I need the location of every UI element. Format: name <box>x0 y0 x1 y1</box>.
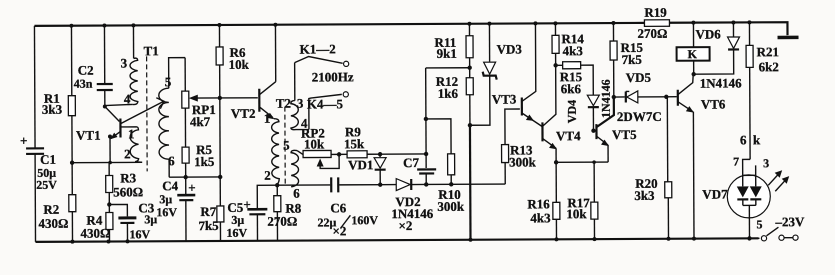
transformer T2 core <box>276 96 292 184</box>
svg-text:C6: C6 <box>330 200 346 215</box>
resistor R1 <box>41 26 75 163</box>
optocoupler VD7 <box>702 154 770 238</box>
transformer T1 winding 1-2 <box>121 126 142 162</box>
svg-text:10k: 10k <box>229 57 250 72</box>
wire: R6 bottom to node y176 <box>218 96 223 177</box>
transformer T1 winding 3-4 <box>104 25 137 106</box>
svg-text:10k: 10k <box>304 136 325 151</box>
resistor R10 <box>424 117 465 214</box>
switch K1-2 <box>295 41 349 100</box>
svg-text:C2: C2 <box>78 63 94 78</box>
svg-text:1: 1 <box>128 126 135 141</box>
label 1N4146 vertical <box>599 79 613 118</box>
svg-text:7: 7 <box>733 154 739 168</box>
svg-text:3μ: 3μ <box>231 213 244 227</box>
wire: top supply rail <box>34 22 787 39</box>
transistor VT1 <box>76 106 121 162</box>
capacitor C2 <box>73 25 112 106</box>
svg-text:3k3: 3k3 <box>42 102 63 117</box>
svg-text:5: 5 <box>283 138 290 153</box>
wire: VT4/VT5 emitter link <box>554 160 608 165</box>
svg-text:430Ω: 430Ω <box>80 226 110 241</box>
svg-text:C4: C4 <box>162 178 178 193</box>
transistor VT6 <box>666 74 727 238</box>
svg-text:6k2: 6k2 <box>759 59 779 74</box>
svg-text:43n: 43n <box>74 77 93 91</box>
svg-text:2100Hz: 2100Hz <box>312 69 354 84</box>
wire: VT2 base line <box>220 97 258 99</box>
svg-text:10k: 10k <box>566 206 587 221</box>
capacitor C3 <box>109 200 157 241</box>
svg-text:T2: T2 <box>276 96 291 111</box>
resistor R5 <box>182 142 215 177</box>
svg-text:6: 6 <box>168 153 175 168</box>
label 1N4146 (VD6) <box>700 75 742 90</box>
relay K <box>676 21 709 77</box>
svg-text:1k5: 1k5 <box>194 154 215 169</box>
resistor R15 (7k5) <box>610 21 644 97</box>
svg-text:R19: R19 <box>644 5 667 20</box>
wire: bottom ground rail <box>36 238 759 242</box>
svg-text:560Ω: 560Ω <box>113 184 143 199</box>
wire: lower signal line <box>275 182 396 187</box>
svg-text:R7: R7 <box>200 204 216 219</box>
svg-text:4k7: 4k7 <box>190 114 211 129</box>
svg-text:K1—2: K1—2 <box>300 41 336 56</box>
svg-text:160V: 160V <box>351 213 378 227</box>
svg-text:7k5: 7k5 <box>622 52 643 67</box>
transformer T2 winding 5-6 <box>283 138 303 201</box>
resistor R17 <box>566 162 598 239</box>
wire: node R5/C4/R7 link y176 <box>169 175 222 180</box>
svg-text:VT3: VT3 <box>492 92 517 107</box>
svg-text:300k: 300k <box>509 154 537 169</box>
svg-text:+: + <box>20 133 27 148</box>
resistor R6 <box>216 25 250 98</box>
svg-text:VD5: VD5 <box>626 70 652 85</box>
svg-text:+: + <box>188 180 195 195</box>
svg-text:VD3: VD3 <box>497 41 523 56</box>
capacitor C6 <box>317 177 378 238</box>
label 2100Hz <box>312 69 354 84</box>
resistor R4 <box>80 202 113 241</box>
svg-text:C7: C7 <box>403 155 419 170</box>
resistor R7 <box>198 177 224 241</box>
resistor R2 <box>38 163 76 242</box>
svg-text:R2: R2 <box>43 202 59 217</box>
labels pin 6 / k <box>740 132 761 147</box>
svg-text:15k: 15k <box>344 136 365 151</box>
diode VD5 <box>611 70 665 103</box>
transformer T1 winding 5-6 <box>159 58 186 178</box>
wire: lower line VD2 to R13 <box>424 182 505 187</box>
svg-text:C1: C1 <box>40 152 56 167</box>
svg-text:2: 2 <box>124 146 131 161</box>
svg-text:1: 1 <box>264 111 271 126</box>
svg-text:K4—5: K4—5 <box>307 96 344 111</box>
resistor R11 <box>434 24 473 68</box>
svg-text:25V: 25V <box>36 178 57 192</box>
svg-text:300k: 300k <box>437 199 465 214</box>
wire: R12 bottom to ground <box>468 123 473 242</box>
svg-text:VD7: VD7 <box>702 186 728 201</box>
svg-text:k: k <box>753 132 761 147</box>
potentiometer RP1 <box>182 57 218 147</box>
svg-text:3: 3 <box>763 156 769 170</box>
svg-text:16V: 16V <box>129 227 150 241</box>
svg-text:3k3: 3k3 <box>634 188 655 203</box>
transistor VT2 <box>230 25 275 121</box>
svg-text:16V: 16V <box>156 205 177 219</box>
svg-text:T1: T1 <box>144 43 159 58</box>
wire: audio node to R11/R12 divider <box>378 152 428 157</box>
wire: divider tap vertical x426 <box>426 68 470 154</box>
label 2DW7C <box>617 109 662 124</box>
svg-text:4: 4 <box>124 91 131 106</box>
junction dots bottom rail right <box>554 237 696 242</box>
svg-text:6: 6 <box>740 132 747 147</box>
transistor VT4 <box>542 65 581 162</box>
svg-text:7k5: 7k5 <box>198 218 219 233</box>
svg-text:VD6: VD6 <box>695 27 721 42</box>
capacitor C5 <box>226 185 277 241</box>
resistor R15 (6k6) <box>556 62 594 97</box>
resistor R8 <box>267 185 302 241</box>
svg-text:1k6: 1k6 <box>438 86 459 101</box>
diode VD2 <box>391 178 434 233</box>
svg-text:3: 3 <box>121 55 128 70</box>
svg-text:16V: 16V <box>226 226 247 240</box>
resistor R21 <box>746 20 780 159</box>
capacitor C1 <box>20 133 57 192</box>
wire: emitter bus y161 <box>72 161 142 163</box>
wire: VT1 base tap arrow into T1 winding 5-6 <box>121 98 164 124</box>
svg-text:5: 5 <box>756 217 762 231</box>
resistor R14 <box>552 23 585 67</box>
transistor VT3 <box>491 23 542 126</box>
ground: chassis bar top right <box>778 36 799 40</box>
svg-text:4k3: 4k3 <box>530 210 551 225</box>
svg-text:R16: R16 <box>527 196 550 211</box>
svg-text:6: 6 <box>293 186 300 201</box>
svg-text:4k3: 4k3 <box>563 43 584 58</box>
svg-text:–23V: –23V <box>774 214 805 229</box>
diode VD1 <box>348 154 386 185</box>
junction dots top rail right <box>217 21 557 27</box>
svg-text:2DW7C: 2DW7C <box>617 109 662 124</box>
svg-text:VT1: VT1 <box>76 128 101 143</box>
transformer T1 core <box>144 43 160 171</box>
svg-text:6k6: 6k6 <box>561 81 582 96</box>
diode VD6 <box>693 20 739 74</box>
svg-text:R3: R3 <box>120 170 136 185</box>
svg-text:R21: R21 <box>757 44 779 59</box>
svg-text:3: 3 <box>297 96 304 111</box>
diode VD4 <box>565 95 600 133</box>
svg-text:VT5: VT5 <box>612 127 637 142</box>
svg-text:1N4146: 1N4146 <box>700 75 742 90</box>
svg-text:VT2: VT2 <box>231 106 256 121</box>
power switch and -23V terminals <box>747 214 805 241</box>
svg-text:3μ: 3μ <box>159 192 172 206</box>
resistor R13 <box>501 109 536 184</box>
zener diode VD3 <box>469 23 522 125</box>
svg-text:270Ω: 270Ω <box>637 26 667 41</box>
svg-text:430Ω: 430Ω <box>38 216 68 231</box>
svg-text:×2: ×2 <box>332 223 346 238</box>
capacitor C7 <box>403 154 436 185</box>
svg-text:VT4: VT4 <box>556 128 581 143</box>
potentiometer RP2 <box>301 125 339 168</box>
junction dots left <box>69 23 136 243</box>
svg-text:K: K <box>688 47 698 61</box>
svg-text:9k1: 9k1 <box>437 46 457 61</box>
transformer T2 winding 1-2 <box>264 111 279 185</box>
svg-text:1N4146: 1N4146 <box>599 79 613 118</box>
wire: left vertical conductor <box>34 26 35 242</box>
resistor R19 <box>637 5 669 41</box>
transformer T2 winding 3-4 <box>291 96 309 131</box>
svg-text:2: 2 <box>264 168 271 183</box>
svg-text:VD4: VD4 <box>565 100 579 123</box>
resistor R3 <box>106 162 144 204</box>
transistor VT5 <box>593 97 637 162</box>
svg-text:270Ω: 270Ω <box>267 214 297 229</box>
svg-text:5: 5 <box>165 74 172 89</box>
svg-text:VD1: VD1 <box>348 157 373 172</box>
resistor R9 <box>337 124 380 158</box>
switch K4-5 <box>307 92 349 130</box>
resistor R16 <box>527 162 560 239</box>
resistor R12 <box>436 66 474 126</box>
capacitor C4 <box>156 177 196 241</box>
resistor R20 <box>634 95 672 239</box>
light emission arrows <box>768 170 789 191</box>
svg-text:VT6: VT6 <box>701 96 726 111</box>
svg-text:+: + <box>243 197 250 212</box>
svg-text:×2: ×2 <box>398 218 412 233</box>
